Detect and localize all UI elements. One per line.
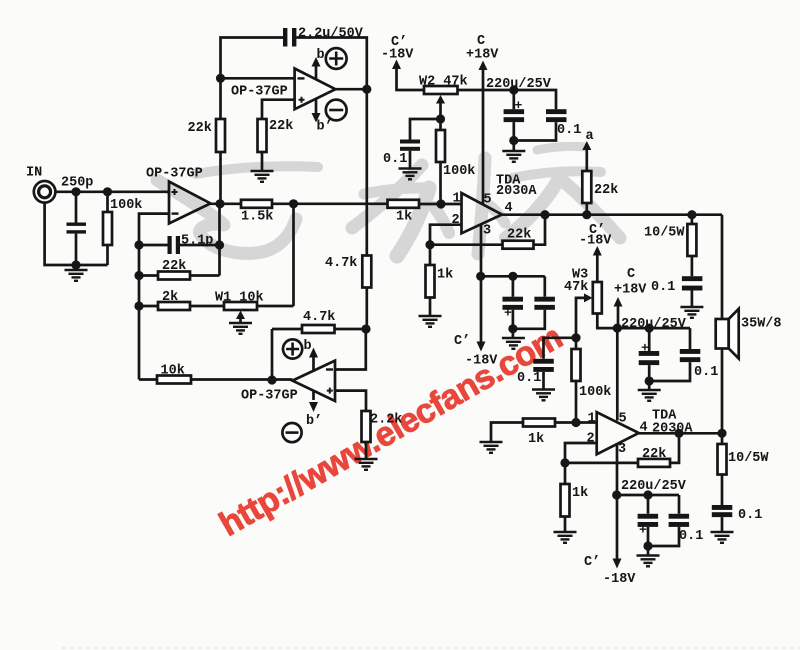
resistor 1k ch2 gnd: [564, 463, 567, 484]
junction pin3 caps row: [476, 272, 485, 281]
offset arrow down op2: [315, 99, 318, 113]
wire op2 plus input: [262, 100, 295, 119]
svg-text:22k: 22k: [594, 183, 618, 198]
svg-text:100k: 100k: [443, 164, 475, 179]
ground op2 22k: [251, 171, 274, 182]
wire 1k to TDA1 pin1: [419, 203, 462, 206]
offset arrow down op3: [312, 390, 315, 400]
junction input-250p: [71, 187, 80, 196]
junction 220u ch1b bottom: [508, 324, 517, 333]
svg-text:1k: 1k: [396, 210, 412, 225]
svg-text:0.1: 0.1: [517, 371, 541, 386]
supply rail ch2: [617, 327, 690, 330]
junction TDA2 out speaker: [717, 429, 726, 438]
wire 22k right to ground: [261, 152, 264, 171]
op-amp TDA2030A ch2: [597, 412, 639, 454]
speaker LS 35W/8: [716, 319, 729, 349]
capacitor 0.1 ch2 supply: [689, 328, 692, 349]
resistor 10k row: [139, 378, 157, 381]
svg-text:22k: 22k: [507, 228, 531, 243]
svg-text:2.2u/50V: 2.2u/50V: [298, 27, 364, 42]
svg-text:+: +: [504, 306, 512, 321]
svg-text:100k: 100k: [110, 198, 142, 213]
wire 4.7k vertical column: [365, 89, 368, 255]
capacitor 0.1 ch2 lower: [678, 495, 681, 514]
svg-text:5: 5: [619, 412, 627, 427]
wire TDA2 output row: [639, 432, 722, 435]
capacitor 0.1 zobel ch2: [712, 505, 733, 510]
wire top rail left: [221, 38, 284, 204]
arrow -18V supply2: [593, 246, 602, 256]
svg-text:-18V: -18V: [465, 354, 498, 369]
svg-text:2.2k: 2.2k: [370, 413, 402, 428]
capacitor 2.2u/50V: [283, 28, 287, 47]
arrow +18V supply2: [614, 297, 623, 307]
potentiometer W2 47k: [424, 86, 458, 94]
wire op1 minus input: [139, 214, 169, 380]
resistor 4.7k vertical: [362, 256, 371, 288]
wire W1 right to main row: [292, 204, 295, 306]
junction 220u ch2b bottom: [643, 541, 652, 550]
svg-text:1k: 1k: [528, 432, 544, 447]
capacitor 220u ch1 lower: [512, 276, 515, 296]
resistor 4.7k feedback op3: [335, 328, 367, 331]
bottom dotted scan edge: [62, 647, 800, 649]
wire TDA2 pin3 column: [616, 445, 619, 559]
capacitor 220u/25V ch1: [512, 90, 515, 109]
svg-text:220u/25V: 220u/25V: [621, 317, 687, 332]
svg-text:0.1: 0.1: [383, 152, 407, 167]
resistor 22k feedback ch1: [430, 243, 503, 246]
junction op3 output: [267, 375, 276, 384]
wire op2 output: [335, 88, 366, 91]
balance minus circle op2: [326, 100, 347, 121]
wire main row op1 to 1.5k: [211, 202, 242, 205]
svg-text:5.1p: 5.1p: [181, 234, 213, 249]
ground 0.1 ch1 ref: [399, 169, 422, 180]
svg-text:1k: 1k: [437, 268, 453, 283]
svg-text:-18V: -18V: [603, 572, 636, 587]
wire input node: [56, 190, 169, 193]
svg-text:5: 5: [484, 193, 492, 208]
resistor 1k ch1 gnd: [429, 245, 432, 265]
ground 1k ch2: [554, 532, 577, 543]
ground zobel ch2: [711, 532, 734, 543]
wire op1out vertical to 22k row: [218, 204, 221, 276]
resistor 10/5W ch1: [687, 210, 696, 219]
capacitor 0.1 ch1 lower: [543, 276, 546, 296]
junction 5.1p right: [215, 240, 224, 249]
resistor 22k to a: [585, 203, 588, 215]
svg-text:10/5W: 10/5W: [728, 451, 769, 466]
op-amp TDA2030A ch1: [462, 193, 503, 233]
junction input-100k: [103, 187, 112, 196]
junction TDA1 pin1 node: [436, 199, 445, 208]
wire speaker column: [721, 215, 724, 319]
junction 22k-a tap: [582, 210, 591, 219]
svg-text:22k: 22k: [188, 121, 212, 136]
resistor 22k op2 left: [216, 119, 225, 152]
svg-text:C’: C’: [454, 334, 470, 349]
svg-text:IN: IN: [26, 166, 42, 181]
svg-text:10k: 10k: [161, 364, 185, 379]
left feedback column junction 2k: [134, 301, 143, 310]
capacitor 250p: [75, 192, 78, 223]
resistor 100k input: [106, 192, 109, 212]
wire op3 output column: [271, 329, 274, 380]
wire TDA1 output row: [502, 213, 722, 216]
resistor 22k feedback ch2: [565, 462, 638, 465]
wire TDA1 pin3 column: [480, 225, 483, 342]
input jack J1: [34, 181, 56, 203]
balance plus circle op2: [326, 48, 347, 69]
svg-text:2k: 2k: [162, 290, 178, 305]
potentiometer W1 10k: [224, 302, 257, 310]
resistor 1.5k: [241, 200, 272, 208]
arrow -18V ch2 down: [613, 559, 622, 569]
svg-text:0.1: 0.1: [651, 280, 675, 295]
svg-text:22k: 22k: [642, 447, 666, 462]
junction 220u ch2b top: [643, 490, 652, 499]
svg-text:0.1: 0.1: [679, 529, 703, 544]
junction 4.7k feedback node: [361, 324, 370, 333]
arrow +18V supply1: [479, 61, 488, 71]
svg-text:OP-37GP: OP-37GP: [241, 389, 298, 404]
ground 220u ch2: [638, 390, 661, 401]
junction 220u ch2 bottom: [645, 376, 654, 385]
watermark glyph wai: [352, 165, 422, 228]
svg-text:C’: C’: [584, 555, 600, 570]
op-amp U2 OP-37GP: [295, 69, 336, 110]
capacitor 0.1 zobel ch1: [682, 276, 703, 281]
svg-text:4.7k: 4.7k: [325, 256, 357, 271]
ground caps ch2 lower: [637, 556, 660, 567]
arrow -18V supply1: [392, 60, 401, 70]
svg-text:W1 10k: W1 10k: [215, 291, 264, 306]
watermark glyph tian: [537, 146, 585, 150]
svg-text:47k: 47k: [564, 280, 588, 295]
resistor 22k row2: [139, 274, 158, 277]
svg-text:2030A: 2030A: [496, 184, 537, 199]
junction feedback tap: [540, 210, 549, 219]
junction TDA2 fb tap: [674, 429, 683, 438]
junction 220u ch2 supply: [645, 324, 654, 333]
svg-text:-18V: -18V: [579, 234, 612, 249]
ground 1k ch2 input: [480, 442, 503, 453]
WATERMARK GRAY: [157, 146, 620, 256]
resistor 100k ch2: [575, 338, 578, 349]
capacitor 220u ch2 supply: [648, 328, 651, 351]
wire TDA2 pin5: [616, 328, 619, 420]
resistor 2.2k: [362, 411, 371, 442]
svg-text:+18V: +18V: [614, 283, 647, 298]
wire top rail right: [296, 38, 366, 90]
junction W3 wiper node: [571, 333, 580, 342]
junction rail pin5: [613, 324, 622, 333]
svg-text:0.1: 0.1: [738, 508, 762, 523]
offset arrow up op3: [312, 357, 315, 372]
svg-text:10/5W: 10/5W: [644, 226, 685, 241]
wire TDA1 pin2: [430, 225, 462, 245]
svg-text:4.7k: 4.7k: [303, 310, 335, 325]
svg-text:3: 3: [618, 442, 626, 457]
resistor 2k: [139, 305, 158, 308]
svg-text:1: 1: [453, 192, 461, 207]
resistor 10/5W ch2: [721, 433, 724, 444]
svg-text:OP-37GP: OP-37GP: [146, 167, 203, 182]
ground 2.2k: [355, 459, 378, 470]
svg-text:W2 47k: W2 47k: [419, 75, 468, 90]
junction op2 output: [362, 85, 371, 94]
wire main row 1.5k to 1k: [272, 202, 388, 205]
svg-text:100k: 100k: [579, 385, 611, 400]
junction 250p-ground: [71, 260, 80, 269]
op-amp U3 OP-37GP: [292, 361, 335, 401]
svg-text:1k: 1k: [572, 486, 588, 501]
junction main row x293: [289, 199, 298, 208]
wire op2 minus input: [221, 77, 295, 80]
junction TDA1 pin2 node: [425, 240, 434, 249]
svg-text:0.1: 0.1: [557, 123, 581, 138]
wire caps row ch2: [617, 494, 679, 497]
resistor 1k ch2 input gnd leg: [491, 423, 523, 442]
capacitor 0.1 ch2 ref: [544, 338, 577, 359]
junction 220u ch1b top: [508, 272, 517, 281]
junction 220u ch1 top: [509, 85, 518, 94]
op-amp U1 OP-37GP: [169, 182, 211, 224]
svg-text:C: C: [627, 267, 635, 282]
svg-text:+18V: +18V: [466, 48, 499, 63]
balance plus circle op3: [283, 339, 302, 358]
svg-text:OP-37GP: OP-37GP: [231, 85, 288, 100]
svg-text:3: 3: [483, 224, 491, 239]
capacitor 0.1 ch1 ref: [400, 140, 420, 144]
svg-text:0.1: 0.1: [694, 365, 718, 380]
svg-text:22k: 22k: [162, 259, 186, 274]
junction TDA2 pin1 node: [571, 418, 580, 427]
watermark glyph yun: [196, 166, 318, 174]
svg-text:b: b: [317, 48, 325, 63]
svg-text:1: 1: [588, 412, 596, 427]
resistor 1k input TDA1: [388, 200, 420, 208]
wire TDA2 pin2: [565, 443, 597, 463]
balance minus circle op3: [282, 423, 301, 442]
junction pin3 caps row ch2: [612, 490, 621, 499]
ground W1 wiper: [229, 323, 252, 334]
wire op3 plus input: [335, 391, 366, 411]
junction W2 wiper node: [436, 114, 445, 123]
wire wiper to 0.1: [410, 119, 441, 140]
ground 0.1 ch2 ref: [532, 390, 555, 401]
ground caps ch1 lower: [502, 338, 525, 349]
resistor 100k ch1: [439, 119, 442, 130]
left feedback column junction 22k: [134, 271, 143, 280]
wire op3 minus input: [335, 329, 366, 370]
svg-text:b’: b’: [306, 414, 322, 429]
svg-text:b’: b’: [317, 120, 333, 135]
capacitor 0.1 ch1 supply: [514, 90, 556, 109]
left feedback column junction 5.1p: [134, 240, 143, 249]
ground 220u ch1: [502, 151, 525, 162]
svg-text:35W/8: 35W/8: [741, 317, 782, 332]
junction 220u ch1 bottom: [509, 136, 518, 145]
wire caps row ch1: [481, 275, 545, 278]
resistor 22k op2 right: [258, 119, 267, 152]
potentiometer W3 47k: [593, 282, 602, 314]
offset arrow up op2: [315, 66, 318, 79]
svg-text:220u/25V: 220u/25V: [621, 479, 687, 494]
capacitor 5.1p: [139, 244, 168, 247]
svg-text:22k: 22k: [269, 119, 293, 134]
svg-text:-18V: -18V: [381, 48, 414, 63]
svg-text:b: b: [304, 339, 312, 354]
junction TDA2 pin2 node: [560, 458, 569, 467]
svg-text:+: +: [639, 523, 647, 538]
ground 1k ch1: [419, 316, 442, 327]
arrow -18V ch1 down: [477, 342, 486, 352]
capacitor 220u ch2 lower: [647, 495, 650, 514]
junction op2 minus node: [216, 74, 225, 83]
ground zobel ch1: [680, 307, 703, 318]
svg-text:1.5k: 1.5k: [241, 210, 273, 225]
svg-text:a: a: [586, 129, 594, 144]
ground input: [65, 265, 88, 281]
junction op1 output: [215, 199, 224, 208]
wire jack ground leg: [45, 203, 108, 265]
